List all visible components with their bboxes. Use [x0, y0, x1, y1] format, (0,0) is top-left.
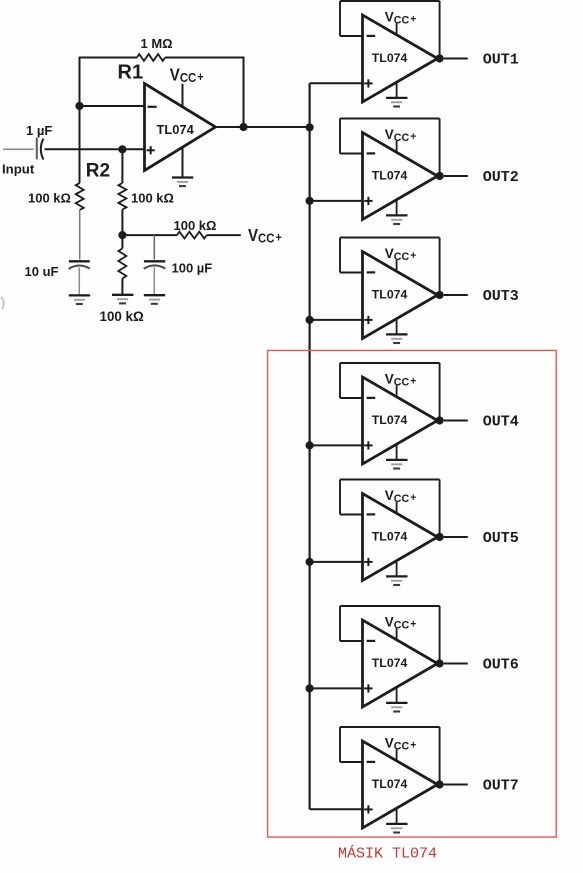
wire: feedback top with resistor leads: [80, 57, 138, 59]
svg-text:OUT7: OUT7: [483, 778, 519, 795]
wire: bus to + input of buffer 5: [310, 561, 363, 563]
ground: below buffer 4: [386, 459, 407, 461]
svg-text:TL074: TL074: [372, 168, 408, 182]
power: VCC+ label of buffer 7: [385, 734, 416, 752]
power: VCC+ label of U1: [170, 65, 204, 85]
svg-text:R2: R2: [86, 160, 110, 181]
ground: below R4: [112, 294, 133, 296]
wire: VCC stem of buffer 2: [396, 141, 398, 153]
power: VCC+ label of buffer 6: [385, 613, 416, 631]
svg-text:TL074: TL074: [372, 287, 408, 301]
wire: ground stem of buffer 3: [396, 319, 398, 335]
pin label: inverting input (-) of buffer 7: [367, 761, 376, 763]
artifact: gray scan mark at left edge: [1, 297, 4, 309]
power: VCC+ label of buffer 3: [385, 245, 416, 263]
capacitor C3 100uF (bias bypass): [144, 235, 166, 295]
resistor R2 100k (upper bias): [118, 183, 126, 210]
node: output dot of buffer 7: [436, 780, 444, 788]
wire: feedback top right segment: [165, 57, 244, 59]
op-amp U4 TL074 (buffer 3): [363, 252, 438, 339]
node: junction dot at - input: [75, 102, 83, 110]
op-amp U1 TL074 (main, non-inverting amp): [145, 84, 216, 171]
ground: below buffer 7: [386, 823, 407, 825]
ground: below buffer 3: [386, 333, 407, 335]
wire: output of buffer 2: [444, 175, 468, 177]
svg-text:OUT1: OUT1: [483, 52, 519, 69]
ground: below C2: [69, 294, 90, 296]
node: junction dot output to bus: [306, 123, 314, 131]
node: output dot of buffer 5: [436, 533, 444, 541]
wire: - input wire: [80, 105, 145, 107]
pin label: non-inverting input (+) of U1: [147, 146, 155, 154]
wire: output of buffer 6: [444, 663, 468, 665]
wire: feedback loop of buffer 1: [340, 1, 440, 59]
wire: bus to + input of buffer 3: [310, 319, 363, 321]
op-amp U7 TL074 (buffer 6): [363, 620, 438, 707]
wire: VCC stem of buffer 4: [396, 385, 398, 397]
svg-text:1 µF: 1 µF: [26, 123, 52, 138]
op-amp U2 TL074 (buffer 1): [363, 15, 438, 102]
svg-text:1 MΩ: 1 MΩ: [141, 36, 173, 51]
wire: R5 to VCC+ label: [207, 234, 241, 236]
ground: below U1: [172, 176, 193, 178]
svg-text:R1: R1: [118, 61, 144, 83]
op-amp U5 TL074 (buffer 4): [363, 377, 438, 464]
power: VCC+ label of buffer 1: [385, 8, 416, 26]
resistor R3 100k (inverting leg): [76, 183, 84, 210]
pin label: inverting input (-) of buffer 2: [367, 152, 376, 154]
svg-text:MÁSIK TL074: MÁSIK TL074: [338, 845, 437, 863]
wire: ground stem of buffer 7: [396, 808, 398, 824]
wire: ground stem of buffer 5: [396, 561, 398, 577]
resistor R1 1 Mohm (feedback): [137, 54, 165, 61]
svg-text:10 uF: 10 uF: [25, 264, 59, 279]
ground: below C3: [144, 294, 165, 296]
svg-text:100 kΩ: 100 kΩ: [174, 218, 217, 233]
node: bias junction dot: [118, 231, 126, 239]
wire: bus to + input of buffer 2: [310, 200, 363, 202]
node: output dot of buffer 3: [436, 291, 444, 299]
pin label: non-inverting input (+) of buffer 3: [364, 316, 372, 324]
wire: R2 to bias node: [121, 210, 123, 236]
wire: output of buffer 4: [444, 420, 468, 422]
annotation: red box around second TL074 package: [268, 350, 557, 837]
svg-text:TL074: TL074: [157, 122, 195, 137]
svg-text:OUT3: OUT3: [483, 288, 519, 305]
wire: feedback left vertical (x=79.5): [79, 57, 81, 107]
svg-text:100 µF: 100 µF: [172, 260, 213, 275]
svg-text:OUT2: OUT2: [483, 169, 519, 186]
svg-text:TL074: TL074: [372, 777, 408, 791]
wire: ground stem of buffer 6: [396, 687, 398, 703]
pin label: non-inverting input (+) of buffer 4: [364, 441, 372, 449]
pin label: inverting input (-) of buffer 4: [367, 397, 376, 399]
node: bus junction dot for buffer 6: [306, 684, 314, 692]
node: output dot of buffer 1: [436, 54, 444, 62]
wire: output of buffer 5: [444, 536, 468, 538]
pin label: non-inverting input (+) of buffer 5: [364, 558, 372, 566]
pin label: inverting input (-) of U1: [148, 106, 157, 108]
ground: below buffer 6: [386, 702, 407, 704]
wire: ground stem of buffer 2: [396, 200, 398, 216]
op-amp U6 TL074 (buffer 5): [363, 494, 438, 581]
wire: ground stem of buffer 1: [396, 82, 398, 98]
node: junction dot at + input / R2 top: [118, 145, 126, 153]
svg-text:100 kΩ: 100 kΩ: [131, 191, 174, 206]
wire: bus bottom corner to buffer7 + input: [310, 808, 363, 810]
pin label: inverting input (-) of buffer 1: [367, 35, 376, 37]
ground: below buffer 2: [386, 214, 407, 216]
wire: VCC stem of buffer 6: [396, 628, 398, 640]
capacitor C1 1uF (input coupling): [37, 138, 44, 160]
ground: below buffer 5: [386, 575, 407, 577]
wire: output of buffer 1: [444, 58, 468, 60]
resistor R4 100k (lower bias): [118, 249, 126, 279]
wire: U1 output to bus: [216, 126, 310, 128]
wire: VCC stem of buffer 7: [396, 749, 398, 761]
wire: input stub (gray): [3, 148, 34, 150]
power: VCC+ label of buffer 2: [385, 126, 416, 144]
wire: bus to + input of buffer 4: [310, 444, 363, 446]
op-amp U8 TL074 (buffer 7): [363, 741, 438, 828]
svg-text:TL074: TL074: [372, 413, 408, 427]
node: bus junction dot for buffer 5: [306, 558, 314, 566]
node: bus junction dot for buffer 3: [306, 316, 314, 324]
node: output dot of buffer 6: [436, 659, 444, 667]
wire: feedback loop of buffer 2: [340, 119, 440, 177]
pin label: inverting input (-) of buffer 5: [367, 513, 376, 515]
svg-text:OUT5: OUT5: [483, 530, 519, 547]
pin label: non-inverting input (+) of buffer 6: [364, 684, 372, 692]
wire: VCC stem of buffer 1: [396, 23, 398, 35]
wire: R4 to ground: [121, 279, 123, 295]
svg-text:TL074: TL074: [372, 656, 408, 670]
wire: bus top corner to buffer1 + input: [310, 82, 363, 84]
node: bus junction dot for buffer 2: [306, 197, 314, 205]
wire: feedback loop of buffer 6: [340, 606, 440, 664]
wire: VCC stem of buffer 5: [396, 502, 398, 514]
pin label: inverting input (-) of buffer 6: [367, 640, 376, 642]
wire: feedback loop of buffer 5: [340, 480, 440, 538]
wire: - node down to R3 (crosses input line, no connection): [79, 106, 81, 183]
power: VCC+ label of buffer 5: [385, 487, 416, 505]
wire: bus to + input of buffer 6: [310, 687, 363, 689]
capacitor C2 10uF: [69, 261, 90, 295]
wire: input to + node: [45, 148, 145, 150]
pin label: non-inverting input (+) of buffer 1: [364, 79, 372, 87]
svg-text:OUT4: OUT4: [483, 414, 519, 431]
node: bus junction dot for buffer 4: [306, 441, 314, 449]
wire: feedback right vertical down to output: [243, 57, 245, 128]
wire: bias node to VCC resistor: [122, 234, 177, 236]
svg-text:100 kΩ: 100 kΩ: [28, 191, 71, 206]
ground: below buffer 1: [386, 97, 407, 99]
node: output junction dot (feedback tap): [239, 123, 247, 131]
wire: feedback loop of buffer 7: [340, 727, 440, 785]
pin label: non-inverting input (+) of buffer 2: [364, 197, 372, 205]
resistor R5 100k (to VCC+): [177, 232, 207, 239]
pin label: non-inverting input (+) of buffer 7: [364, 805, 372, 813]
svg-text:Input: Input: [2, 161, 35, 176]
node: output dot of buffer 2: [436, 172, 444, 180]
pin label: inverting input (-) of buffer 3: [367, 271, 376, 273]
power: VCC+ label (bias supply): [248, 226, 282, 246]
wire: bias node down to R4: [121, 235, 123, 249]
node: output dot of buffer 4: [436, 416, 444, 424]
svg-text:100 kΩ: 100 kΩ: [100, 309, 145, 324]
svg-text:TL074: TL074: [372, 51, 408, 65]
wire: feedback loop of buffer 3: [340, 238, 440, 296]
wire: output of buffer 7: [444, 784, 468, 786]
wire: ground stem of buffer 4: [396, 444, 398, 460]
wire: ground stem of U1: [182, 148, 184, 178]
power: VCC+ label of buffer 4: [385, 370, 416, 388]
wire: R3 to C2 (gray lead): [79, 210, 81, 260]
op-amp U3 TL074 (buffer 2): [363, 133, 438, 220]
svg-text:TL074: TL074: [372, 529, 408, 543]
wire: feedback loop of buffer 4: [340, 363, 440, 421]
wire: + node down to R2 resistor: [121, 149, 123, 183]
svg-text:OUT6: OUT6: [483, 657, 519, 674]
wire: VCC stem of U1: [182, 84, 184, 107]
wire: vertical distribution bus: [309, 83, 311, 809]
wire: VCC stem of buffer 3: [396, 260, 398, 272]
wire: output of buffer 3: [444, 294, 468, 296]
